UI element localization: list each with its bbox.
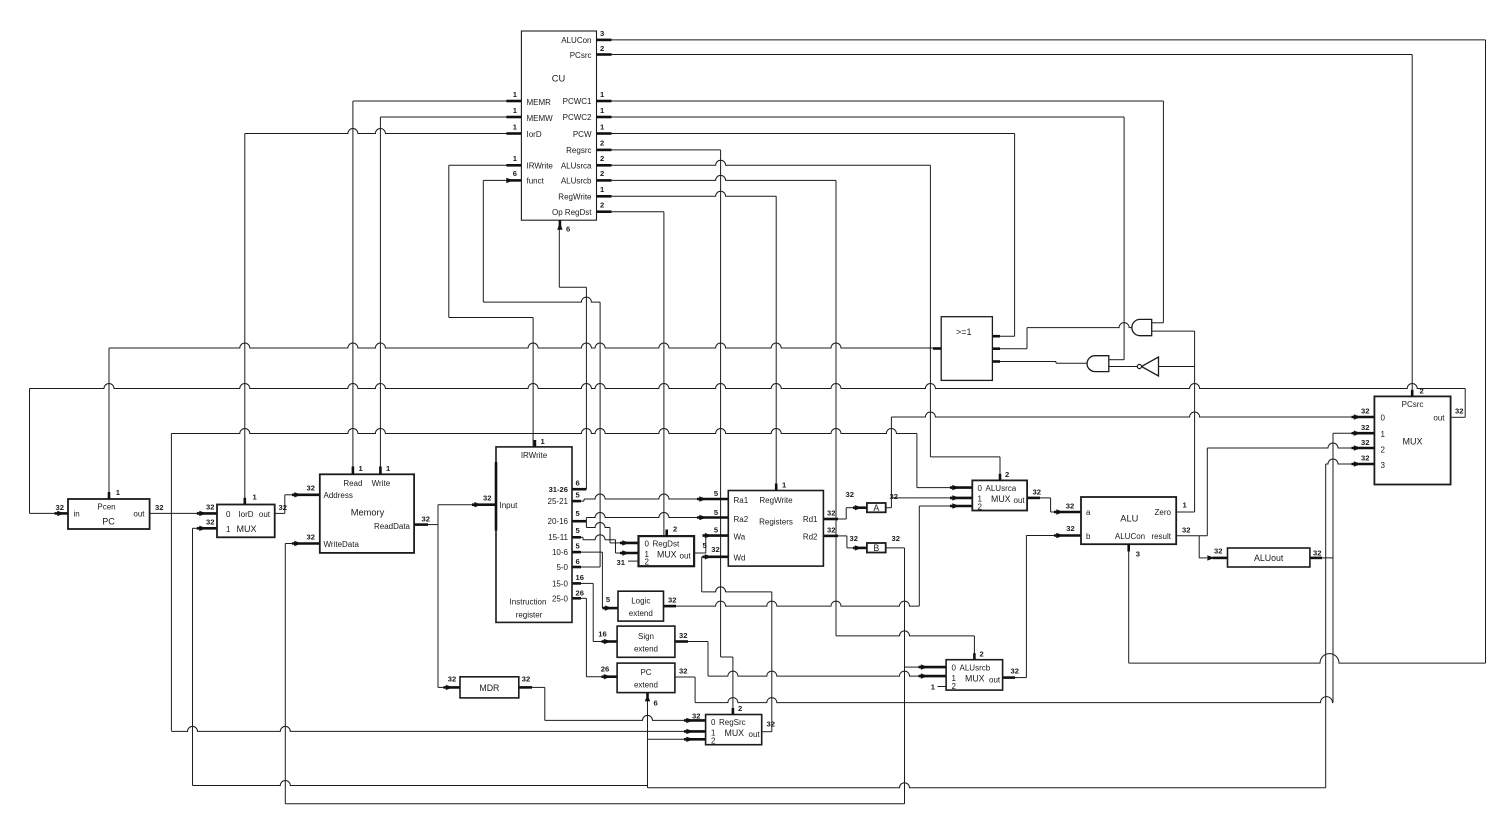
stub IR 31-26	[572, 488, 586, 491]
stub CU Op bottom	[559, 220, 562, 228]
wire ReadData vertical	[437, 505, 439, 688]
wire ALUsrcb out vertical	[1025, 536, 1027, 678]
svg-text:32: 32	[679, 631, 687, 640]
wire netJ bottom right segment	[648, 783, 1326, 788]
svg-text:32: 32	[1361, 438, 1369, 447]
arrowhead PCsrc input2	[1354, 445, 1361, 450]
svg-text:32: 32	[692, 711, 700, 720]
svg-text:32: 32	[307, 484, 315, 493]
wire AND2 output link	[1056, 362, 1087, 364]
arrowhead Ra2	[699, 515, 706, 520]
svg-text:31: 31	[617, 558, 626, 567]
arrowhead ALUsrca input1	[952, 495, 959, 500]
wire 15-11	[583, 535, 616, 540]
wire into Logic extend	[602, 607, 604, 609]
wire PC extend out vertical	[694, 677, 696, 703]
wire PCen vertical to PC top	[108, 348, 110, 493]
mux RegSrc	[706, 715, 762, 745]
stub IorD select top	[244, 498, 247, 505]
stub PC Pcen top	[108, 492, 111, 499]
stub PCsrc input2	[1352, 447, 1375, 450]
svg-text:15-0: 15-0	[552, 579, 569, 588]
stub PC extend bottom	[646, 690, 649, 697]
wire ALUsrca select vertical	[929, 165, 931, 457]
stub PC in	[55, 512, 69, 515]
svg-text:MEMR: MEMR	[527, 98, 552, 107]
arrowhead RegSrc input0	[686, 718, 693, 723]
svg-text:26: 26	[576, 589, 584, 598]
stub IorD input1	[197, 527, 217, 530]
wire IorD select vertical	[244, 134, 246, 505]
wire RegWrite vertical to Registers	[775, 196, 777, 490]
svg-text:31-26: 31-26	[549, 485, 568, 494]
wire Address vertical	[284, 495, 286, 514]
wire Wd vertical	[701, 557, 703, 592]
wire Logic extend vertical	[918, 506, 920, 606]
arrowhead Wa	[705, 533, 712, 538]
stub OR left	[933, 347, 941, 350]
wire Ra1 jog vertical	[583, 499, 585, 501]
stub ALUsrca input2	[950, 505, 972, 508]
wire inverter out to AND2	[1109, 366, 1138, 368]
stub MDR in	[444, 686, 461, 689]
stub IR 5-0	[572, 566, 581, 569]
wire ALUsrcb out	[1015, 677, 1026, 679]
register ALUout	[1228, 548, 1310, 567]
svg-text:A: A	[873, 503, 879, 513]
wire IRWrite row from CU	[449, 164, 522, 166]
svg-text:b: b	[1086, 532, 1091, 541]
svg-text:32: 32	[155, 503, 163, 512]
svg-text:result: result	[1151, 532, 1171, 541]
svg-text:32: 32	[679, 667, 687, 676]
svg-text:MUX: MUX	[991, 494, 1011, 504]
wire Regsrc row from CU	[597, 149, 721, 151]
svg-text:out: out	[989, 676, 1001, 685]
wire netJ vertical under PC extend	[647, 701, 649, 788]
svg-text:ReadData: ReadData	[374, 522, 411, 531]
svg-text:6: 6	[654, 699, 658, 708]
svg-text:1: 1	[1381, 430, 1386, 439]
wire 10-6 vertical to Logic extend	[601, 552, 603, 608]
svg-text:32: 32	[1313, 549, 1321, 558]
wire OR input3 jog	[1055, 362, 1057, 364]
svg-text:32: 32	[206, 517, 214, 526]
svg-text:2: 2	[645, 558, 650, 567]
wire Sign extend vertical	[707, 642, 709, 677]
stub Memory Address	[292, 493, 320, 496]
stub ALU b	[1054, 534, 1081, 537]
svg-text:2: 2	[600, 44, 604, 53]
wire B to ALUsrcb input0	[905, 666, 921, 668]
svg-text:6: 6	[513, 169, 517, 178]
stub Memory Read top	[352, 467, 355, 475]
wire inverter input	[1159, 366, 1195, 368]
stub RegDst select top	[665, 530, 668, 537]
wire RegSrc out	[762, 731, 772, 733]
svg-text:32: 32	[668, 596, 676, 605]
mux IorD	[217, 505, 275, 538]
wire MEMW vertical to Memory Write	[379, 117, 381, 474]
wire ALUsrcb row from CU	[597, 175, 837, 180]
wire ALUout out link	[1310, 557, 1333, 559]
mux PCsrc	[1374, 396, 1450, 484]
arrowhead Wd	[705, 554, 712, 559]
wire into ALU b	[1026, 535, 1056, 537]
stub RegSrc input1	[684, 730, 706, 733]
wire ALUCon into ALU bottom	[1128, 544, 1130, 663]
svg-text:Ra2: Ra2	[734, 515, 749, 524]
arrowhead ALUsrca input2	[952, 503, 959, 508]
stub OR right3	[992, 360, 1000, 363]
arrowhead Logic extend in	[605, 605, 612, 610]
register B	[867, 543, 886, 553]
svg-text:3: 3	[600, 29, 604, 38]
svg-text:25-21: 25-21	[548, 497, 569, 506]
Logic extend	[618, 591, 664, 621]
arrowhead RegDst input0	[622, 540, 629, 545]
svg-text:ALUCon: ALUCon	[561, 36, 591, 45]
stub IR 15-11	[572, 536, 581, 539]
wire Zero vertical to gates	[1194, 331, 1196, 512]
stub OR right1	[992, 335, 1000, 338]
wire result to PCsrc input2	[1207, 443, 1353, 448]
svg-text:Wd: Wd	[734, 554, 746, 563]
arrowhead into PC extend bottom	[645, 694, 650, 701]
wire Sign extend out	[688, 641, 708, 643]
arrowhead PCsrc input3	[1354, 461, 1361, 466]
svg-text:10-6: 10-6	[552, 548, 569, 557]
wire constant 1 into ALUsrcb input2	[938, 686, 947, 688]
svg-text:32: 32	[483, 493, 491, 502]
arrowhead ALUsrcb input1	[921, 673, 928, 678]
svg-text:1: 1	[226, 525, 231, 534]
stub ALUsrcb input0	[919, 666, 947, 669]
svg-text:PC: PC	[640, 668, 651, 677]
svg-text:ALUsrca: ALUsrca	[561, 162, 592, 171]
svg-text:2: 2	[600, 139, 604, 148]
svg-text:Read: Read	[343, 479, 362, 488]
svg-text:32: 32	[1011, 667, 1019, 676]
svg-text:out: out	[259, 510, 271, 519]
svg-text:32: 32	[1066, 524, 1074, 533]
wire funct vertical	[482, 180, 484, 302]
svg-text:IRWrite: IRWrite	[527, 162, 554, 171]
svg-text:32: 32	[1066, 502, 1074, 511]
wire Op link	[559, 286, 586, 288]
wire WriteData vertical	[284, 544, 286, 804]
svg-text:32: 32	[522, 675, 530, 684]
wire A to ALUsrca input1	[891, 497, 952, 499]
register PC	[68, 499, 150, 529]
svg-text:ALUsrcb: ALUsrcb	[960, 664, 991, 673]
wire RegSrc out vertical	[771, 592, 773, 732]
arrowhead ALU a	[1056, 509, 1063, 514]
svg-text:a: a	[1086, 508, 1091, 517]
arrowhead RegSrc input1	[686, 729, 693, 734]
wire RegSrc out link	[702, 587, 772, 592]
svg-text:32: 32	[1455, 407, 1463, 416]
wire PC net horizontal y433	[171, 429, 917, 434]
svg-text:32: 32	[846, 490, 854, 499]
stub PC extend in	[602, 675, 618, 678]
mux ALUsrca	[972, 480, 1027, 510]
svg-text:out: out	[133, 510, 145, 519]
svg-text:20-16: 20-16	[548, 517, 569, 526]
svg-text:MEMW: MEMW	[527, 114, 554, 123]
stub A in	[853, 506, 867, 509]
wire 25-0 vertical to PC extend	[585, 598, 587, 676]
arrowhead Address	[294, 492, 301, 497]
wire PCsrc out vertical	[1464, 389, 1466, 418]
wire into Wa	[705, 535, 708, 537]
wire MDR out	[532, 686, 545, 688]
wire MEMR vertical to Memory Read	[352, 101, 354, 474]
svg-text:32: 32	[206, 503, 214, 512]
stub B in	[853, 547, 867, 550]
svg-text:ALUsrcb: ALUsrcb	[561, 177, 592, 186]
svg-text:funct: funct	[527, 177, 545, 186]
wire IorD out	[275, 512, 285, 514]
stub ReadData	[414, 523, 428, 526]
wire ALUsrca into MUX top	[999, 457, 1001, 481]
wire PCWC2 vertical to AND2	[1123, 117, 1125, 360]
stub RegWrite top	[775, 484, 778, 491]
wire into Wd	[702, 556, 707, 558]
and-gate U2	[1087, 356, 1109, 372]
wire into PCsrc input1	[1333, 432, 1354, 434]
wire Rd1 vertical	[845, 508, 847, 519]
wire OR input3 left part	[992, 361, 1056, 363]
stub Sign extend in	[602, 640, 618, 643]
svg-text:2: 2	[711, 737, 716, 746]
svg-text:16: 16	[576, 573, 584, 582]
wire PCWC1 vertical to AND gate	[1162, 101, 1164, 323]
svg-text:PCWC1: PCWC1	[563, 97, 592, 106]
wire B vertical down	[904, 548, 906, 804]
svg-text:Logic: Logic	[631, 597, 650, 606]
stub IR 20-16	[572, 520, 586, 523]
arrowhead B in	[855, 545, 862, 550]
arrowhead PCsrc input1	[1354, 431, 1361, 436]
stub IRWrite top	[534, 440, 537, 447]
stub RegDst input0	[620, 542, 639, 545]
wire 15-0 vertical to Sign extend	[592, 583, 594, 641]
wire ReadData out	[428, 524, 438, 526]
wire AND1 output vertical	[1026, 328, 1028, 349]
svg-text:32: 32	[279, 503, 287, 512]
svg-text:B: B	[873, 543, 879, 553]
stub ALUsrca select top	[999, 474, 1002, 481]
stub Memory Write top	[379, 467, 382, 475]
arrowhead Sign extend in	[604, 639, 611, 644]
wire funct vertical to IR 5-0	[599, 302, 601, 567]
svg-text:32: 32	[1361, 454, 1369, 463]
svg-text:Input: Input	[500, 501, 519, 510]
svg-text:0: 0	[226, 510, 231, 519]
stub PCsrc input1	[1352, 432, 1375, 435]
wire ALUCon right vertical	[1485, 40, 1487, 663]
svg-text:32: 32	[827, 526, 835, 535]
svg-text:32: 32	[1361, 423, 1369, 432]
wire ALUsrca out vertical	[1050, 498, 1052, 512]
wire into IorD input1	[193, 527, 200, 529]
register MDR	[460, 677, 519, 698]
svg-text:0: 0	[1381, 414, 1386, 423]
wire into ALU a	[1051, 511, 1056, 513]
stub ALUsrcb select top	[973, 653, 976, 660]
svg-text:2: 2	[1005, 470, 1009, 479]
stub IR 25-21	[572, 500, 581, 503]
wire MDR to RegSrc input0	[545, 715, 686, 720]
stub RegSrc input0	[684, 719, 706, 722]
wire result to ALUout	[1199, 557, 1207, 559]
arrowhead PC in	[57, 511, 64, 516]
wire 25-0	[581, 597, 586, 599]
stub Ra1	[697, 498, 728, 501]
svg-text:32: 32	[711, 545, 719, 554]
arrowhead IorD input0	[199, 511, 206, 516]
svg-text:6: 6	[566, 225, 570, 234]
svg-text:ALUCon: ALUCon	[1115, 532, 1145, 541]
svg-text:32: 32	[56, 503, 64, 512]
svg-text:32: 32	[1182, 526, 1190, 535]
svg-text:32: 32	[892, 534, 900, 543]
wire 15-11 to RegDst1	[616, 552, 623, 554]
wire Regsrc select vertical	[720, 150, 722, 657]
svg-text:IRWrite: IRWrite	[521, 451, 548, 460]
wire RegDst select vertical	[663, 212, 665, 536]
svg-text:Wa: Wa	[734, 533, 746, 542]
svg-text:IorD: IorD	[238, 510, 253, 519]
wire Zero out	[1176, 511, 1194, 513]
stub RegSrc select top	[732, 708, 735, 715]
svg-text:out: out	[1014, 496, 1026, 505]
svg-text:PCW: PCW	[573, 130, 592, 139]
OR gate >=1 block	[941, 317, 992, 381]
wire MEMR row from CU	[353, 100, 522, 102]
arrowhead ALUout in	[1207, 555, 1214, 560]
stub ALUsrca input0	[950, 486, 972, 489]
stub RegDst input1	[620, 552, 639, 555]
svg-text:>=1: >=1	[956, 327, 972, 337]
wire IRWrite link	[449, 317, 533, 319]
arrowhead A in	[855, 505, 862, 510]
stub ALUout in	[1213, 557, 1228, 560]
svg-text:32: 32	[448, 675, 456, 684]
wire ALUsrcb select vertical	[835, 180, 837, 636]
svg-text:RegDst: RegDst	[653, 539, 680, 548]
wire into PCsrc input3	[1326, 459, 1354, 464]
wire result vertical up	[1206, 448, 1208, 536]
svg-text:2: 2	[673, 525, 677, 534]
wire PC net to RegSrc input1	[171, 726, 686, 731]
svg-text:IorD: IorD	[527, 130, 542, 139]
stub IR 15-0	[572, 582, 581, 585]
PC extend	[617, 663, 675, 693]
wire into OR input2	[992, 348, 1027, 350]
svg-text:ALUout: ALUout	[1254, 553, 1284, 563]
svg-text:MUX: MUX	[237, 524, 257, 534]
wire RegDst row from CU	[597, 211, 664, 213]
svg-text:MUX: MUX	[965, 674, 985, 684]
wire PCsrc1 vertical	[1332, 433, 1334, 702]
svg-text:out: out	[749, 730, 761, 739]
svg-text:Sign: Sign	[638, 632, 654, 641]
svg-text:6: 6	[576, 478, 580, 487]
svg-text:Rd2: Rd2	[803, 533, 818, 542]
svg-text:2: 2	[738, 704, 742, 713]
svg-text:WriteData: WriteData	[324, 540, 360, 549]
svg-text:32: 32	[1033, 488, 1041, 497]
svg-text:MUX: MUX	[725, 728, 745, 738]
wire into PC extend	[586, 676, 603, 678]
svg-text:Ra1: Ra1	[734, 496, 749, 505]
wire into Sign extend	[593, 641, 603, 643]
wire IR 25-21 to Ra1	[584, 494, 699, 499]
svg-text:Address: Address	[324, 491, 353, 500]
arrowhead PCsrc input0	[1354, 414, 1361, 419]
svg-text:2: 2	[600, 201, 604, 210]
wire into A	[846, 507, 854, 509]
svg-text:32: 32	[1361, 407, 1369, 416]
svg-text:2: 2	[600, 169, 604, 178]
arrowhead funct into CU	[506, 178, 513, 183]
wire PCsrc row from CU	[597, 54, 1413, 56]
control unit CU	[521, 31, 596, 220]
wire PCW into OR input	[992, 335, 1014, 337]
wire RegDst out	[694, 552, 706, 554]
svg-text:16: 16	[598, 630, 606, 639]
stub ALUsrcb input1	[919, 675, 947, 678]
arrowhead Op into CU bottom	[557, 223, 562, 230]
wire ALUsrcb select link	[836, 631, 974, 636]
wire Rd2 to B	[838, 535, 847, 537]
svg-text:2: 2	[978, 503, 983, 512]
svg-text:Zero: Zero	[1155, 508, 1172, 517]
wire PCsrc out link	[1451, 416, 1466, 418]
stub IR 25-0	[572, 597, 581, 600]
inverter bubble	[1137, 364, 1141, 368]
svg-text:Op: Op	[552, 208, 563, 217]
wire ALUsrca out	[1040, 497, 1051, 499]
wire 20-16 branch vertical	[585, 518, 587, 528]
stub Wa	[703, 534, 729, 537]
stub IR Input left edge	[495, 462, 498, 531]
wire MEMW row from CU	[380, 116, 521, 118]
arrowhead MDR in	[446, 685, 453, 690]
svg-text:15-11: 15-11	[548, 533, 568, 542]
stub RegSrc input2	[684, 738, 706, 741]
stub Rd1	[823, 518, 838, 521]
wire netJ tap to RegSrc input2	[648, 738, 687, 740]
arrowhead WriteData	[294, 541, 301, 546]
mux ALUsrcb	[946, 660, 1003, 690]
Instruction register IR	[496, 447, 572, 623]
Memory	[320, 474, 414, 553]
wire MDR vertical	[544, 687, 546, 720]
svg-text:32: 32	[767, 720, 775, 729]
arrowhead IR Input	[474, 502, 481, 507]
arrowhead RegDst input1	[622, 550, 629, 555]
stub PCsrc select top	[1411, 390, 1414, 397]
mux RegDst	[639, 536, 695, 566]
svg-text:extend: extend	[634, 645, 658, 654]
wire Rd2 vertical	[846, 536, 848, 548]
wire ALU result out	[1176, 535, 1207, 537]
svg-text:32: 32	[422, 514, 430, 523]
svg-text:RegSrc: RegSrc	[719, 718, 746, 727]
